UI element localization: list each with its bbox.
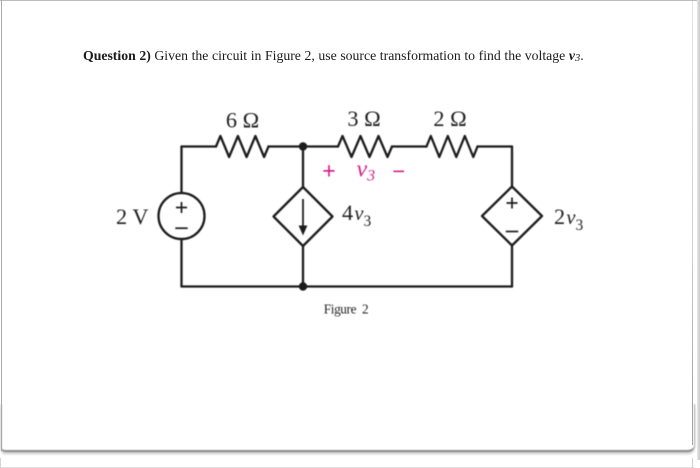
wire top-left segment <box>182 145 217 147</box>
svg-text:v3: v3 <box>357 156 376 184</box>
svg-text:+: + <box>322 159 336 185</box>
node B bottom junction dot <box>299 282 307 290</box>
wire left branch lower <box>180 239 182 287</box>
dependent current source U1 diamond <box>274 187 333 246</box>
svg-text:4v3: 4v3 <box>342 200 371 230</box>
resistor R1 6ohm <box>216 136 269 157</box>
wire top middle-left segment <box>269 145 339 147</box>
wire top-right segment <box>478 145 513 147</box>
card left border line <box>1 0 2 451</box>
resistor R2 3ohm <box>338 136 392 157</box>
card right border line <box>692 0 693 445</box>
minus sign inside dependent source U2 <box>506 231 518 233</box>
next card faint right edge stub <box>692 458 693 468</box>
wire top middle-right segment <box>392 145 427 147</box>
wire bottom segment <box>182 285 513 287</box>
wire middle branch upper <box>302 147 304 188</box>
minus sign inside voltage source V1 <box>175 227 187 229</box>
svg-text:Figure 2: Figure 2 <box>324 301 368 316</box>
card top border line <box>0 0 700 1</box>
dependent voltage source U2 diamond <box>482 187 542 246</box>
wire middle branch lower <box>302 246 304 287</box>
svg-text:3 Ω: 3 Ω <box>347 106 380 131</box>
wire right branch upper <box>511 147 513 187</box>
arrow of dependent current source <box>299 199 308 236</box>
plus sign inside voltage source V1 <box>176 202 187 213</box>
card bottom border with rounded corners <box>1 404 695 452</box>
next card faint top edge at bottom <box>0 467 694 468</box>
right edge gray band <box>697 0 700 460</box>
svg-text:−: − <box>392 159 405 184</box>
plus sign inside dependent source U2 <box>507 198 518 209</box>
node A top junction dot <box>299 142 307 150</box>
svg-text:2 V: 2 V <box>116 204 148 229</box>
voltage source V1 circle <box>159 193 205 239</box>
svg-text:2v3: 2v3 <box>554 204 583 234</box>
question text <box>83 48 603 64</box>
wire right branch lower <box>511 246 513 287</box>
svg-text:6 Ω: 6 Ω <box>226 108 259 133</box>
next card faint left edge stub <box>0 458 1 468</box>
resistor R3 2ohm <box>427 136 478 157</box>
svg-text:2 Ω: 2 Ω <box>433 106 466 131</box>
wire left branch upper <box>180 147 182 194</box>
